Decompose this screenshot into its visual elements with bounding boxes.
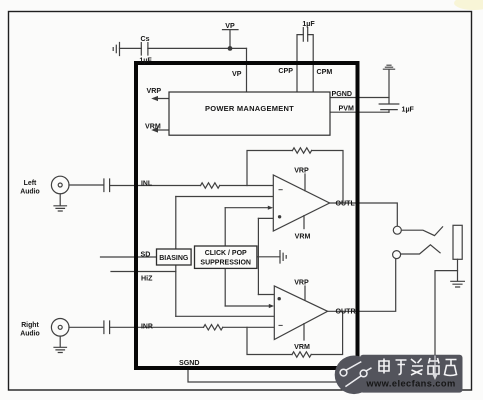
connector J1 Left Audio <box>51 176 103 211</box>
svg-text:1µF: 1µF <box>139 56 152 64</box>
capacitor C5 right input <box>104 321 110 334</box>
svg-text:VRP: VRP <box>294 166 309 174</box>
wire bias to U2 <box>176 196 273 198</box>
wire to U3 upper input <box>258 294 274 296</box>
svg-text:www.elecfans.com: www.elecfans.com <box>365 379 455 389</box>
svg-text:SD: SD <box>141 250 151 258</box>
svg-text:Cs: Cs <box>140 35 149 43</box>
svg-text:Left: Left <box>24 180 37 187</box>
wire PGND <box>330 97 389 99</box>
watermark chinese glyph blocks <box>379 358 457 376</box>
wire SGND over watermark <box>433 356 437 379</box>
watermark <box>335 355 463 394</box>
net VRM arrow <box>151 127 169 132</box>
wire VP node to VP pin <box>246 48 248 92</box>
wire INL <box>110 185 274 187</box>
wire OUTL <box>330 203 398 229</box>
net label VRP stub (U2) <box>304 174 306 191</box>
svg-text:VRM: VRM <box>145 123 161 131</box>
capacitor Cs 1uF <box>141 43 148 55</box>
wire U2 feedback top <box>247 151 343 204</box>
wire to U2 lower input <box>258 217 273 219</box>
wire SGND route <box>188 271 458 382</box>
wire U3 feedback bottom <box>247 311 343 354</box>
wire SD <box>101 256 157 258</box>
svg-text:CPM: CPM <box>317 68 333 76</box>
svg-text:Audio: Audio <box>20 188 40 195</box>
capacitor C4 left input <box>104 179 110 192</box>
wire PVM <box>330 111 389 113</box>
wire Cs to VP node <box>148 47 247 49</box>
riser right of clickpop <box>257 218 259 294</box>
capacitor C1 1uF flying <box>303 28 307 42</box>
svg-text:1µF: 1µF <box>402 106 415 114</box>
svg-text:BIASING: BIASING <box>159 255 189 262</box>
svg-text:CPP: CPP <box>278 67 293 75</box>
wire INR <box>110 326 275 328</box>
ground sideways (click/pop) <box>257 251 286 263</box>
connector J3 headphone jack <box>393 225 465 287</box>
svg-text:VRP: VRP <box>147 87 162 95</box>
svg-text:POWER MANAGEMENT: POWER MANAGEMENT <box>205 104 294 113</box>
svg-text:1µF: 1µF <box>302 20 315 28</box>
capacitor C2 1uF <box>379 104 399 112</box>
svg-text:Right: Right <box>21 322 39 329</box>
resistor R2 U2 feedback <box>292 148 311 153</box>
block U1 POWER MANAGEMENT <box>169 92 330 135</box>
svg-text:VRM: VRM <box>294 343 310 351</box>
op-amp U2 (left channel) <box>273 175 329 231</box>
svg-text:OUTL: OUTL <box>336 200 356 208</box>
net VRP arrow <box>151 96 169 101</box>
wire CPM <box>308 35 314 92</box>
connector J2 Right Audio <box>51 319 103 353</box>
svg-text:VP: VP <box>232 70 242 78</box>
block BIASING <box>157 249 192 265</box>
svg-text:PVM: PVM <box>339 105 354 113</box>
svg-text:HiZ: HiZ <box>141 274 153 282</box>
net label VRP stub (U3) <box>304 286 306 300</box>
wire CPP <box>297 35 303 92</box>
svg-text:SUPPRESSION: SUPPRESSION <box>200 260 251 267</box>
riser HiZ/bias to U3 <box>176 315 274 317</box>
net label VRM stub (U3) <box>303 324 305 340</box>
svg-text:VP: VP <box>225 22 235 30</box>
resistor R4 U3 feedback <box>292 352 311 357</box>
resistor R3 INR <box>204 325 223 330</box>
riser bias to U2 noninv chain <box>175 197 177 317</box>
svg-text:CLICK / POP: CLICK / POP <box>205 250 247 257</box>
svg-text:PGND: PGND <box>332 90 353 98</box>
svg-text:VRP: VRP <box>294 278 309 286</box>
op-amp U3 (right channel) <box>274 286 327 340</box>
net label VRM stub (U2) <box>303 216 305 229</box>
riser clickpop to U2 arrow input <box>224 208 226 306</box>
wire clickpop to U2 (arrow) <box>225 206 273 210</box>
svg-text:VRM: VRM <box>295 233 311 241</box>
IC boundary <box>136 63 358 368</box>
node VP junction <box>228 46 233 51</box>
corner tint <box>454 0 483 10</box>
ground PGND earth <box>383 65 394 103</box>
wire ground to Cs <box>120 47 142 49</box>
resistor R1 INL <box>201 183 220 188</box>
block CLICK/POP SUPPRESSION <box>195 246 257 268</box>
svg-text:INR: INR <box>141 323 153 330</box>
svg-text:OUTR: OUTR <box>336 308 356 316</box>
wire HiZ <box>111 271 176 273</box>
wire clickpop to U3 (arrow) <box>225 304 274 308</box>
net label VP stub <box>223 30 239 47</box>
svg-text:INL: INL <box>141 180 152 187</box>
wire OUTR <box>328 258 396 312</box>
ground GND1 sideways (Cs bypass) <box>113 43 119 56</box>
svg-text:Audio: Audio <box>20 331 40 338</box>
svg-text:SGND: SGND <box>179 359 200 367</box>
